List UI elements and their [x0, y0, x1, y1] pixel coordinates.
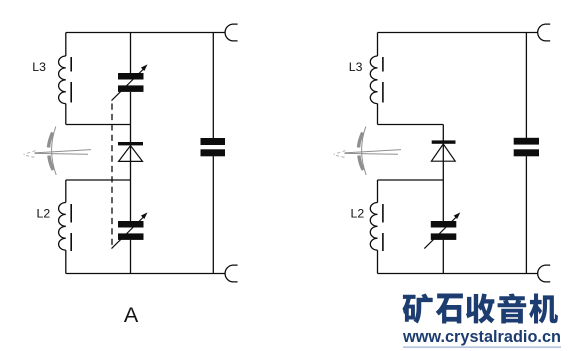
wire: horizontal tap (right L3 bottom to diode branch)	[378, 124, 444, 126]
rotor symbol (right circuit) arc thick lower wedge	[359, 156, 363, 171]
svg-text:L2: L2	[37, 206, 51, 220]
diode D2 (right circuit) cathode bar	[432, 140, 456, 143]
variable capacitor C1 (left circuit top) plate 1	[118, 73, 144, 80]
variable capacitor C1 (left circuit top) adjustment arrow shaft	[112, 69, 145, 101]
svg-text:A: A	[124, 303, 139, 327]
rotor symbol (right circuit) arc thick upper wedge	[359, 133, 363, 148]
terminal bottom, right circuit	[538, 265, 551, 282]
svg-text:www.crystalradio.cn: www.crystalradio.cn	[402, 328, 561, 346]
fixed capacitor C5 (right circuit) plate 1	[514, 138, 539, 145]
rotor symbol (left circuit) arc thick upper wedge	[49, 133, 53, 148]
variable capacitor C1 (left circuit top) arrowhead	[141, 64, 148, 71]
variable capacitor C2 (left circuit bottom) plate 1	[118, 221, 144, 228]
wire: left rail lower segment (L2 to bottom wire)	[65, 250, 67, 273]
diode D2 (right circuit) anode triangle	[431, 144, 455, 161]
inductor L2 (left circuit) winding	[59, 203, 66, 251]
wire: right circuit bottom horizontal	[378, 273, 538, 275]
fixed capacitor C3 (left circuit) plate 1	[201, 138, 226, 145]
rotor symbol (right circuit) arrow lower edge	[345, 152, 399, 155]
variable capacitor C4 (right circuit) plate 1	[431, 221, 457, 228]
rotor symbol (right circuit) arrow upper edge	[345, 150, 402, 153]
variable capacitor C1 (left circuit top) plate 2	[118, 85, 144, 92]
wire: right circuit right branch lower (C5 to bottom)	[525, 156, 527, 273]
fixed capacitor C3 (left circuit) plate 2	[201, 149, 226, 156]
variable capacitor C4 (right circuit) arrowhead	[454, 212, 461, 219]
watermark character shou 收	[466, 293, 495, 323]
svg-text:L2: L2	[351, 206, 365, 220]
wire: left rail upper segment (top wire to L3)	[65, 33, 67, 57]
terminal top, left circuit	[225, 24, 238, 41]
wire: left rail from L3 down to tap A	[65, 104, 67, 125]
variable capacitor C2 (left circuit bottom) plate 2	[118, 233, 144, 240]
variable capacitor C4 (right circuit) plate 2	[431, 233, 457, 240]
rotor symbol (left circuit) arrow upper edge	[35, 150, 92, 153]
dashed gang-coupling line between C1 and C2	[111, 104, 113, 246]
wire: diode branch through triangle down to C4	[442, 144, 444, 221]
wire: left circuit top horizontal	[66, 32, 225, 34]
inductor L2 (right circuit) core marks	[382, 204, 384, 251]
inductor L3 (left circuit) winding	[59, 56, 66, 104]
watermark underline bar	[403, 346, 561, 348]
inductor L2 (right circuit) winding	[370, 203, 377, 251]
wire: centre rail through diode down to C2	[130, 146, 132, 222]
wire: centre rail top (top wire down to C1)	[130, 33, 132, 74]
rotor/tuning gang symbol (right circuit) arc	[362, 127, 367, 175]
watermark character yin 音	[498, 293, 527, 323]
wire: horizontal tap (right L2 top to diode branch)	[378, 179, 444, 181]
inductor L3 (right circuit) winding	[370, 56, 377, 104]
wire: centre rail bottom (C2 to bottom wire)	[130, 240, 132, 274]
variable capacitor C2 (left circuit bottom) arrowhead	[141, 212, 148, 219]
rotor symbol (left circuit) arc thick lower wedge	[49, 156, 53, 171]
wire: right circuit left rail down to tap	[377, 104, 379, 125]
wire: right circuit top horizontal	[378, 32, 538, 34]
inductor L2 (left circuit) core marks	[70, 204, 72, 251]
variable capacitor C2 (left circuit bottom) adjustment arrow shaft	[112, 217, 145, 249]
diode D1 (left circuit) cathode bar	[118, 142, 143, 145]
wire: centre rail between C1 and diode	[130, 92, 132, 142]
rotor/tuning gang symbol (left circuit) arc	[52, 127, 57, 175]
svg-text:L3: L3	[32, 60, 46, 74]
wire: horizontal tap (L3 bottom to centre rail)	[66, 124, 131, 126]
inductor L3 (right circuit) core marks	[382, 57, 384, 103]
diode D1 (left circuit) anode triangle	[119, 146, 143, 162]
wire: right circuit right branch upper (to C5)	[525, 33, 527, 139]
wire: right circuit left rail lower segment	[377, 250, 379, 273]
terminal top, right circuit	[538, 24, 551, 41]
svg-text:L3: L3	[349, 60, 363, 74]
watermark character kuang 矿	[402, 293, 432, 323]
wire: left rail from tap B down to L2	[65, 180, 67, 203]
rotor symbol (right circuit) dashed open arrowhead	[334, 151, 346, 158]
watermark character ji 机	[529, 293, 558, 323]
wire: right circuit left rail tap-to-L2	[377, 180, 379, 203]
wire: horizontal tap (L2 top to centre rail)	[66, 179, 131, 181]
inductor L3 (left circuit) core marks	[70, 57, 72, 103]
rotor symbol (left circuit) arrow lower edge	[35, 152, 89, 155]
wire: right circuit left rail upper segment	[377, 33, 379, 57]
wire: diode branch bottom (C4 to bottom wire)	[442, 240, 444, 274]
wire: diode branch upper segment (right circuit)	[442, 125, 444, 141]
terminal bottom, left circuit	[225, 265, 238, 282]
wire: right branch lower (C3 to bottom wire)	[212, 156, 214, 273]
watermark character shi 石	[436, 293, 463, 323]
fixed capacitor C5 (right circuit) plate 2	[514, 149, 539, 156]
variable capacitor C4 (right circuit) adjustment arrow shaft	[424, 217, 457, 249]
rotor symbol (left circuit) dashed open arrowhead	[24, 151, 36, 158]
wire: left circuit bottom horizontal	[66, 273, 225, 275]
wire: right branch upper (top wire to C3)	[212, 33, 214, 139]
